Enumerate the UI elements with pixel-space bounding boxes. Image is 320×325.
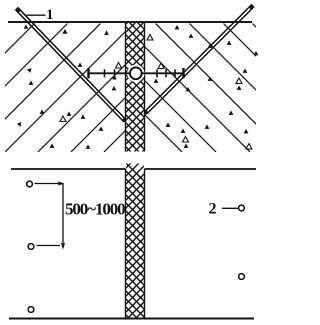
top border of wall section (8, 21, 252, 23)
waterstop center bulb (circle on joint) (127, 65, 144, 82)
dimension upper extension line with arrow (35, 183, 63, 185)
injection port circle right bottom (239, 274, 245, 280)
grouting pipe 2 (right, double line) (144, 4, 255, 115)
aggregate triangles left (17, 25, 117, 149)
injection port circle left bottom (28, 307, 34, 313)
aggregate hollow triangles left (60, 63, 122, 122)
waterstop left arm (89, 68, 130, 78)
injection port circle left middle (28, 244, 34, 250)
bottom panel bottom border (9, 317, 254, 319)
callout 2 leader (222, 207, 238, 209)
callout 1 leader (27, 14, 46, 16)
aggregate triangles right (154, 25, 259, 148)
injection port circle right top (item 2) (239, 205, 245, 211)
injection port circle left top (27, 181, 33, 187)
top wall section: concrete hatch left of joint (0, 23, 233, 152)
expansion joint strip (bottom panel) crosshatch (118, 131, 163, 325)
bottom panel top border (interrupted by joint) (11, 168, 126, 170)
waterstop right arm (143, 68, 184, 78)
dimension lower extension line with arrow (37, 245, 61, 247)
svg-text:2: 2 (209, 201, 217, 218)
grouting pipe 1 (left, double line) (15, 7, 127, 123)
svg-text:1: 1 (46, 7, 54, 23)
expansion joint strip (top panel) crosshatch (118, 0, 163, 192)
dimension vertical line (62, 184, 64, 248)
joint strip edges (top panel) (125, 23, 127, 152)
svg-text:500~1000: 500~1000 (65, 200, 125, 219)
joint strip edges (bottom panel) (125, 169, 127, 319)
top wall section: concrete hatch right of joint (53, 23, 320, 152)
aggregate hollow triangles right (147, 35, 252, 150)
